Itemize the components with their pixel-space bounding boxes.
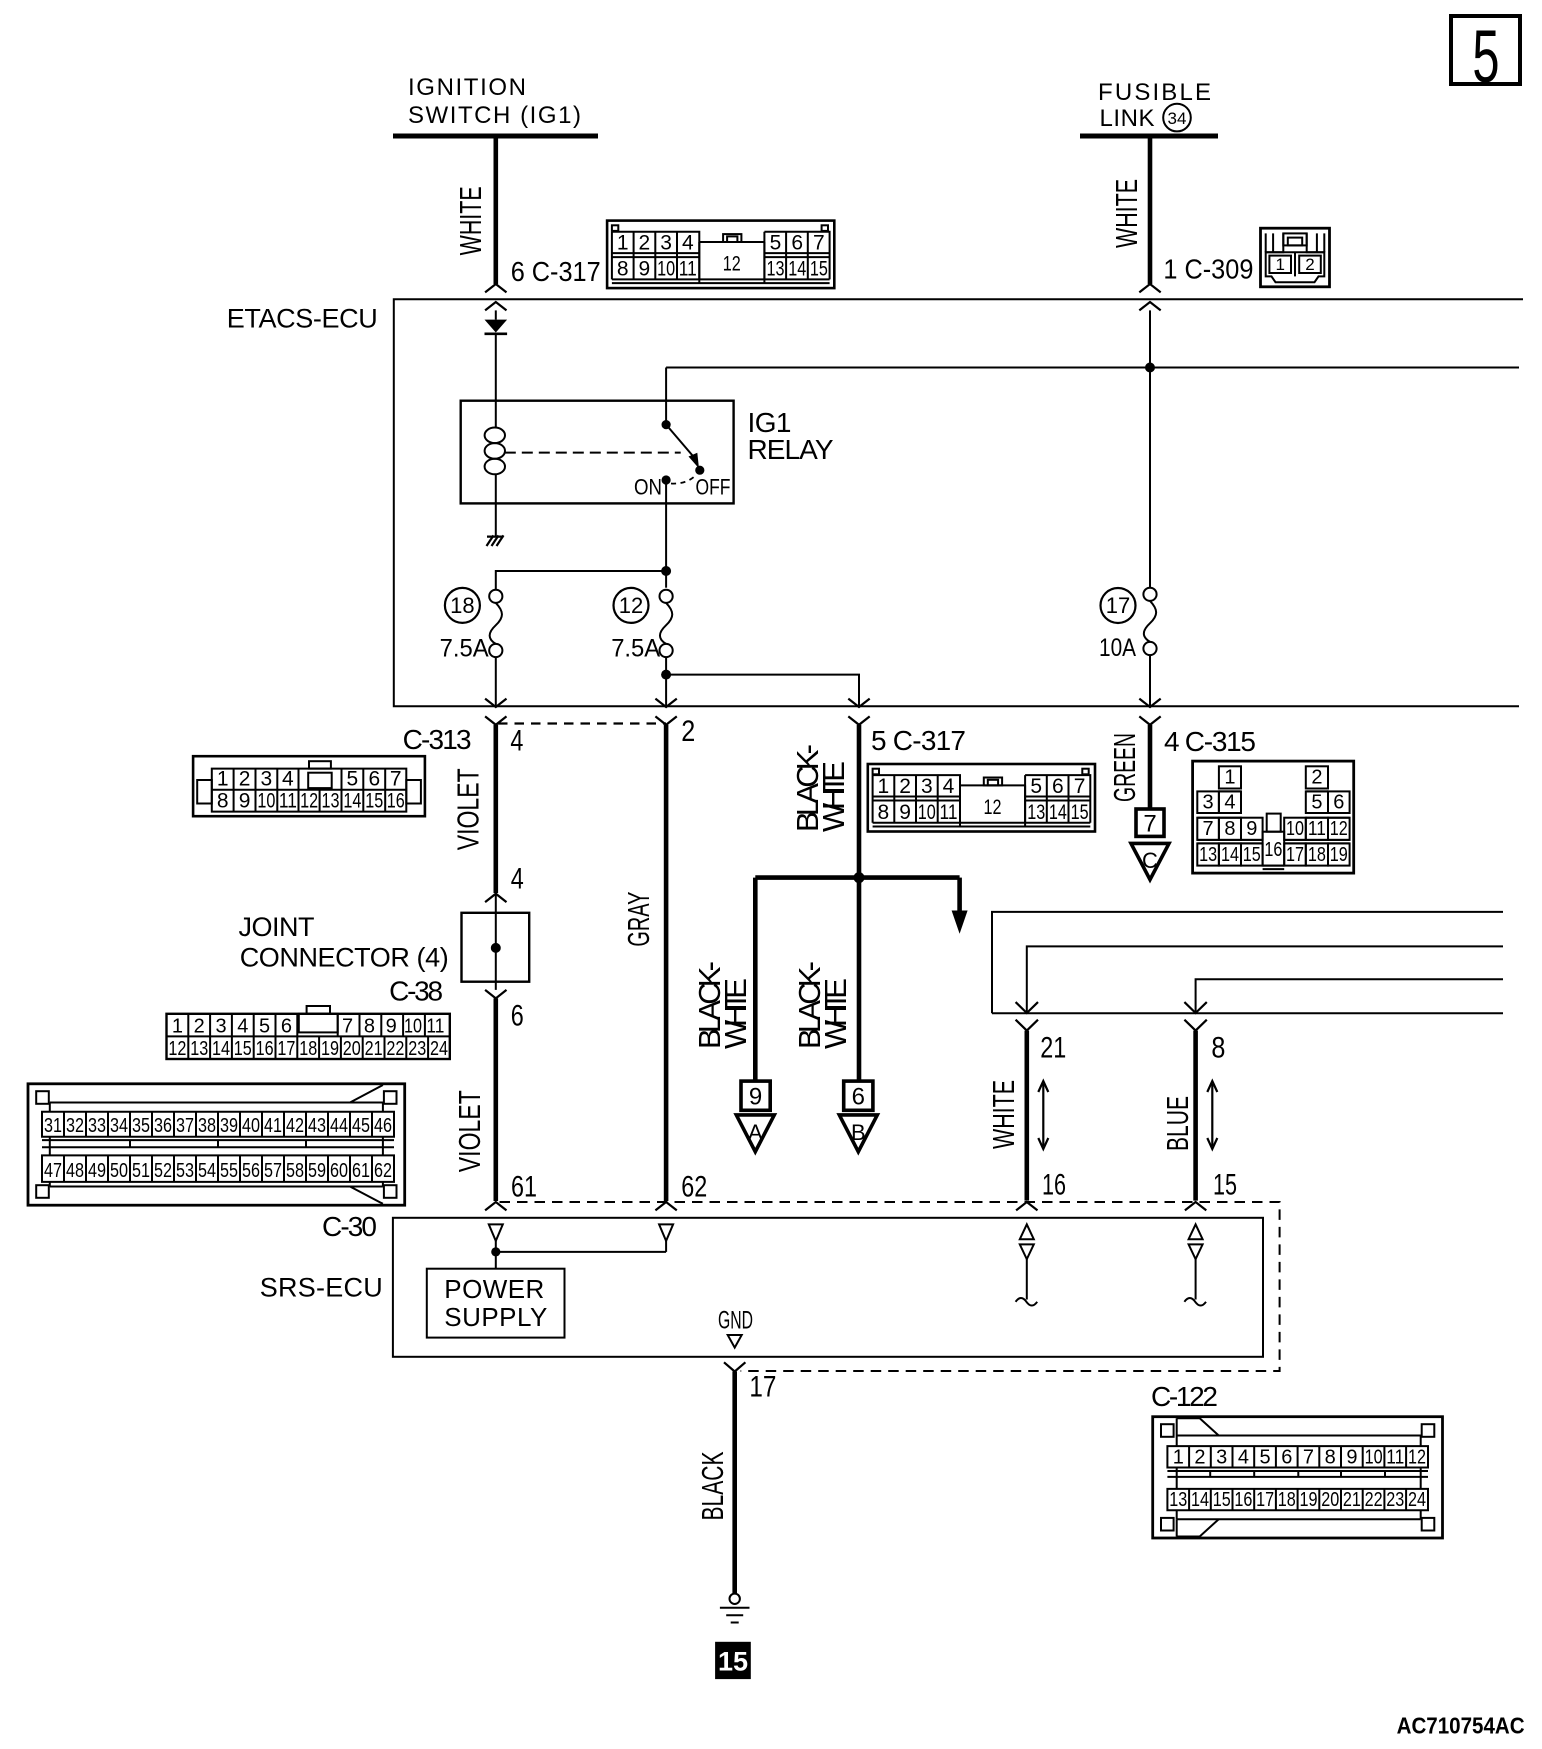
wire junction to fuse 12 xyxy=(665,571,667,588)
svg-text:22: 22 xyxy=(386,1038,404,1060)
svg-text:8: 8 xyxy=(217,790,229,813)
svg-text:7: 7 xyxy=(342,1015,353,1037)
harness line 3 (blue wire feed) xyxy=(1196,979,1503,1013)
svg-text:36: 36 xyxy=(154,1115,172,1137)
svg-text:1: 1 xyxy=(217,768,229,791)
svg-text:AC710754AC: AC710754AC xyxy=(1397,1713,1525,1739)
wire from relay ON contact down xyxy=(665,480,667,571)
connector C-309 pin diagram xyxy=(1261,228,1330,287)
svg-text:1: 1 xyxy=(172,1015,183,1037)
svg-text:9: 9 xyxy=(239,790,251,813)
internal wiring to power supply xyxy=(496,1241,666,1269)
joint connector entry chevron xyxy=(485,894,506,902)
svg-text:11: 11 xyxy=(1308,818,1326,840)
svg-text:17: 17 xyxy=(277,1038,295,1060)
svg-text:C-38: C-38 xyxy=(389,975,443,1006)
svg-text:15: 15 xyxy=(810,258,828,281)
svg-text:7: 7 xyxy=(1203,818,1214,840)
svg-text:GREEN: GREEN xyxy=(1107,733,1142,802)
fusible link bus bar xyxy=(1080,134,1218,139)
svg-text:16: 16 xyxy=(256,1038,274,1060)
white wire connector chevrons xyxy=(1016,1002,1038,1031)
fuse 18 xyxy=(489,590,502,657)
wire GRAY from ETACS pin 2 to SRS pin 62 xyxy=(664,725,669,1201)
fuse 12 number xyxy=(614,588,649,623)
svg-text:BLUE: BLUE xyxy=(1160,1096,1195,1151)
svg-text:19: 19 xyxy=(1330,844,1348,866)
wire from relay switch up to bus xyxy=(665,368,667,425)
svg-text:1: 1 xyxy=(617,232,629,255)
svg-text:IGNITION: IGNITION xyxy=(408,74,526,101)
svg-text:46: 46 xyxy=(374,1115,392,1137)
svg-text:3: 3 xyxy=(660,232,672,255)
ETACS pin 4 exit chevrons xyxy=(485,699,506,725)
junction on BLACK-WHITE wire xyxy=(854,872,865,883)
svg-text:3: 3 xyxy=(1203,791,1214,813)
svg-text:18: 18 xyxy=(1308,844,1326,866)
joint connector (4) label xyxy=(239,912,449,972)
wire GREEN from ETACS to terminal 7 xyxy=(1148,725,1153,809)
svg-text:60: 60 xyxy=(330,1160,348,1182)
dashed connector line between pin 4 and pin 2 xyxy=(498,722,666,724)
svg-text:39: 39 xyxy=(220,1115,238,1137)
svg-text:17: 17 xyxy=(1256,1489,1274,1511)
svg-text:15: 15 xyxy=(1243,844,1261,866)
svg-text:9: 9 xyxy=(639,258,651,281)
pin 15 internal terminals xyxy=(1184,1224,1206,1305)
terminal 7 box xyxy=(1136,809,1164,838)
relay switch arm with arrow xyxy=(666,425,699,469)
connector C-317 pin diagram (lower) xyxy=(868,764,1095,832)
power supply block xyxy=(427,1269,565,1338)
svg-text:13: 13 xyxy=(190,1038,208,1060)
svg-text:B: B xyxy=(851,1120,866,1145)
svg-text:41: 41 xyxy=(264,1115,282,1137)
wire BLACK to ground xyxy=(732,1372,737,1594)
wire WHITE from ignition switch to C-317 pin 6 xyxy=(493,136,498,284)
svg-text:45: 45 xyxy=(352,1115,370,1137)
ignition switch (IG1) label xyxy=(408,74,581,129)
svg-text:4: 4 xyxy=(282,768,294,791)
svg-text:12: 12 xyxy=(168,1038,186,1060)
pin 15 entry chevron xyxy=(1185,1202,1206,1210)
SRS connector dashed boundary xyxy=(500,1202,1280,1371)
diode inside ETACS xyxy=(485,310,508,400)
connector C-122 pin diagram xyxy=(1153,1417,1443,1538)
svg-text:14: 14 xyxy=(788,258,806,281)
bidirectional arrow blue wire xyxy=(1207,1081,1217,1149)
ETACS green exit chevrons xyxy=(1139,699,1160,725)
svg-text:5: 5 xyxy=(1472,16,1499,99)
svg-text:2: 2 xyxy=(1311,767,1322,789)
svg-text:10: 10 xyxy=(257,790,275,813)
svg-text:24: 24 xyxy=(1408,1489,1426,1511)
svg-text:VIOLET: VIOLET xyxy=(451,768,486,850)
svg-text:4: 4 xyxy=(510,725,523,758)
svg-text:31: 31 xyxy=(44,1115,62,1137)
bidirectional arrow white wire xyxy=(1038,1081,1048,1149)
connector C-313 pin diagram xyxy=(193,756,425,816)
ETACS pin 5 exit chevrons xyxy=(848,699,869,725)
svg-text:18: 18 xyxy=(1278,1489,1296,1511)
relay coil xyxy=(485,401,505,504)
svg-text:JOINT: JOINT xyxy=(239,912,315,942)
svg-text:7: 7 xyxy=(1303,1447,1314,1469)
branch arrow to other circuit xyxy=(952,878,968,934)
svg-text:8: 8 xyxy=(1224,818,1235,840)
svg-text:34: 34 xyxy=(110,1115,128,1137)
svg-text:4: 4 xyxy=(1224,791,1235,813)
svg-text:54: 54 xyxy=(198,1160,216,1182)
svg-text:16: 16 xyxy=(1264,839,1282,861)
svg-text:1 C-309: 1 C-309 xyxy=(1163,253,1253,284)
svg-text:7.5A: 7.5A xyxy=(611,635,660,663)
wire from C-309 down to internal bus and fuse 17 xyxy=(1149,310,1151,587)
svg-text:58: 58 xyxy=(286,1160,304,1182)
svg-text:50: 50 xyxy=(110,1160,128,1182)
connector C-38 pin diagram xyxy=(167,1006,450,1060)
destination triangle A xyxy=(736,1115,774,1152)
svg-text:18: 18 xyxy=(450,593,474,618)
svg-text:FUSIBLE: FUSIBLE xyxy=(1098,79,1211,106)
svg-text:2: 2 xyxy=(1305,255,1314,274)
svg-text:15: 15 xyxy=(365,790,383,813)
joint connector box xyxy=(462,913,530,982)
svg-text:21: 21 xyxy=(365,1038,383,1060)
joint connector exit chevron xyxy=(485,990,506,999)
svg-text:6: 6 xyxy=(511,999,524,1032)
svg-text:6: 6 xyxy=(1281,1447,1292,1469)
svg-text:VIOLET: VIOLET xyxy=(452,1090,487,1172)
GND exit chevron xyxy=(724,1362,745,1371)
relay ON-OFF dashed arc xyxy=(671,475,697,484)
svg-text:1: 1 xyxy=(1275,255,1284,274)
wire BLUE to SRS pin 15 xyxy=(1193,1031,1198,1201)
blue wire connector chevrons xyxy=(1184,1002,1206,1031)
relay ON contact xyxy=(662,475,671,484)
svg-text:7: 7 xyxy=(1143,811,1156,838)
svg-text:6: 6 xyxy=(852,1084,865,1111)
terminal 9 box xyxy=(741,1081,770,1110)
svg-text:32: 32 xyxy=(66,1115,84,1137)
pin 16 entry chevron xyxy=(1016,1202,1037,1210)
svg-text:10: 10 xyxy=(657,258,675,281)
svg-text:3: 3 xyxy=(215,1015,226,1037)
pin 62 internal terminal xyxy=(659,1224,673,1241)
connector symbol 6 C-317 chevrons xyxy=(485,284,506,310)
relay coil ground wire xyxy=(495,503,497,536)
svg-text:GND: GND xyxy=(718,1307,753,1335)
svg-text:13: 13 xyxy=(322,790,340,813)
junction fusible-link feed xyxy=(1145,363,1155,373)
svg-text:5: 5 xyxy=(1260,1447,1271,1469)
pin 16 internal terminals xyxy=(1016,1224,1038,1305)
body ground symbol xyxy=(720,1594,750,1623)
joint connector internal junction dot xyxy=(491,943,501,953)
svg-text:10: 10 xyxy=(1286,818,1304,840)
svg-text:8: 8 xyxy=(364,1015,375,1037)
svg-text:10: 10 xyxy=(1365,1447,1383,1469)
svg-text:34: 34 xyxy=(1168,109,1187,128)
junction at fuse feed xyxy=(661,566,671,576)
svg-text:14: 14 xyxy=(1221,844,1239,866)
svg-text:48: 48 xyxy=(66,1160,84,1182)
svg-text:1: 1 xyxy=(1224,767,1235,789)
svg-text:7: 7 xyxy=(390,768,402,791)
svg-text:13: 13 xyxy=(1169,1489,1187,1511)
svg-text:56: 56 xyxy=(242,1160,260,1182)
svg-text:12: 12 xyxy=(1408,1447,1426,1469)
ETACS pin 2 exit chevrons xyxy=(655,699,676,725)
fuse 18 number xyxy=(445,588,480,623)
svg-text:9: 9 xyxy=(749,1084,762,1111)
fusible link (34) label xyxy=(1098,79,1211,132)
ETACS-ECU box outline xyxy=(394,299,1523,706)
fuse 17 xyxy=(1143,588,1156,655)
svg-text:WHITE: WHITE xyxy=(986,1080,1021,1149)
svg-text:BLACK: BLACK xyxy=(695,1451,730,1520)
svg-text:3: 3 xyxy=(261,768,273,791)
svg-text:17: 17 xyxy=(749,1371,776,1404)
svg-text:SWITCH (IG1): SWITCH (IG1) xyxy=(408,102,581,129)
svg-text:15: 15 xyxy=(1213,1489,1231,1511)
IG1 relay box xyxy=(461,401,734,504)
svg-text:13: 13 xyxy=(1199,844,1217,866)
svg-text:8: 8 xyxy=(1211,1032,1225,1065)
svg-text:14: 14 xyxy=(1191,1489,1209,1511)
svg-text:20: 20 xyxy=(1321,1489,1339,1511)
wire fuse 18 to ETACS pin 4 xyxy=(495,657,497,707)
svg-text:8: 8 xyxy=(617,258,629,281)
internal junction dot xyxy=(491,1247,500,1256)
svg-text:19: 19 xyxy=(321,1038,339,1060)
svg-text:OFF: OFF xyxy=(696,475,731,500)
svg-text:47: 47 xyxy=(44,1160,62,1182)
svg-text:4: 4 xyxy=(511,863,524,896)
relay switch common contact xyxy=(662,420,671,429)
destination triangle B xyxy=(839,1115,877,1152)
connector C-315 pin diagram xyxy=(1193,761,1354,873)
branch wire to ETACS pin 5 xyxy=(666,675,859,707)
svg-text:WHITE: WHITE xyxy=(453,186,488,255)
svg-text:11: 11 xyxy=(1386,1447,1404,1469)
svg-text:33: 33 xyxy=(88,1115,106,1137)
svg-text:WHITE: WHITE xyxy=(1109,179,1144,248)
svg-text:16: 16 xyxy=(387,790,405,813)
svg-text:40: 40 xyxy=(242,1115,260,1137)
svg-text:61: 61 xyxy=(352,1160,370,1182)
svg-text:11: 11 xyxy=(279,790,297,813)
GND internal terminal xyxy=(728,1335,742,1348)
IG1 relay label xyxy=(748,407,834,465)
svg-text:6: 6 xyxy=(791,232,803,255)
svg-text:44: 44 xyxy=(330,1115,348,1137)
svg-text:C-30: C-30 xyxy=(322,1211,377,1242)
svg-text:7.5A: 7.5A xyxy=(440,635,489,663)
svg-text:SUPPLY: SUPPLY xyxy=(444,1302,547,1332)
svg-text:5: 5 xyxy=(1311,791,1322,813)
svg-text:7: 7 xyxy=(813,232,825,255)
wire BLACK-WHITE from ETACS pin 5 xyxy=(857,725,862,1081)
svg-text:2: 2 xyxy=(1194,1447,1205,1469)
relay OFF contact xyxy=(695,466,704,475)
svg-text:49: 49 xyxy=(88,1160,106,1182)
svg-text:6 C-317: 6 C-317 xyxy=(511,256,601,287)
svg-text:14: 14 xyxy=(212,1038,230,1060)
svg-text:16: 16 xyxy=(1042,1169,1066,1202)
svg-text:CONNECTOR (4): CONNECTOR (4) xyxy=(240,943,449,973)
svg-text:21: 21 xyxy=(1040,1032,1066,1065)
junction for pin 5 branch xyxy=(661,670,671,680)
pin 62 entry chevron xyxy=(655,1202,676,1210)
svg-text:61: 61 xyxy=(511,1171,537,1204)
svg-text:57: 57 xyxy=(264,1160,282,1182)
pin 61 entry chevron xyxy=(485,1202,506,1210)
svg-text:62: 62 xyxy=(374,1160,392,1182)
terminal 6 box xyxy=(844,1081,873,1110)
svg-text:4: 4 xyxy=(682,232,694,255)
svg-text:5: 5 xyxy=(347,768,359,791)
branch line left and right xyxy=(755,875,959,880)
wire through joint connector xyxy=(495,894,497,990)
svg-text:5: 5 xyxy=(770,232,782,255)
svg-text:17: 17 xyxy=(1106,593,1130,618)
svg-text:ON: ON xyxy=(634,475,662,500)
svg-text:59: 59 xyxy=(308,1160,326,1182)
svg-text:4: 4 xyxy=(237,1015,248,1037)
svg-text:12: 12 xyxy=(300,790,318,813)
svg-text:23: 23 xyxy=(408,1038,426,1060)
svg-text:9: 9 xyxy=(1346,1447,1357,1469)
connector C-30 pin diagram xyxy=(28,1084,405,1205)
svg-text:55: 55 xyxy=(220,1160,238,1182)
svg-text:19: 19 xyxy=(1300,1489,1318,1511)
svg-text:4 C-315: 4 C-315 xyxy=(1164,726,1256,757)
svg-text:C: C xyxy=(1142,848,1158,873)
svg-text:15: 15 xyxy=(718,1647,748,1677)
wire WHITE from fusible link to C-309 pin 1 xyxy=(1148,136,1153,284)
svg-text:ETACS-ECU: ETACS-ECU xyxy=(227,303,378,333)
svg-text:16: 16 xyxy=(1234,1489,1252,1511)
svg-text:2: 2 xyxy=(194,1015,205,1037)
svg-text:9: 9 xyxy=(1246,818,1257,840)
harness line 4 xyxy=(992,1012,1503,1014)
svg-text:6: 6 xyxy=(281,1015,292,1037)
svg-text:SRS-ECU: SRS-ECU xyxy=(260,1273,383,1303)
svg-text:20: 20 xyxy=(343,1038,361,1060)
wire fuse 12 to ETACS pin 2 xyxy=(665,657,667,707)
svg-text:52: 52 xyxy=(154,1160,172,1182)
page number 5 box xyxy=(1451,16,1520,99)
svg-text:62: 62 xyxy=(681,1171,707,1204)
svg-text:LINK: LINK xyxy=(1100,105,1155,132)
svg-text:8: 8 xyxy=(1325,1447,1336,1469)
svg-text:13: 13 xyxy=(767,258,785,281)
pin 61 internal terminal xyxy=(489,1224,503,1241)
svg-text:37: 37 xyxy=(176,1115,194,1137)
svg-text:15: 15 xyxy=(1213,1169,1237,1202)
svg-text:10A: 10A xyxy=(1099,634,1136,662)
fuse 12 xyxy=(660,590,673,657)
svg-text:RELAY: RELAY xyxy=(748,434,834,465)
svg-text:4: 4 xyxy=(1238,1447,1249,1469)
svg-text:22: 22 xyxy=(1365,1489,1383,1511)
svg-text:5: 5 xyxy=(259,1015,270,1037)
svg-text:11: 11 xyxy=(679,258,697,281)
svg-text:23: 23 xyxy=(1386,1489,1404,1511)
svg-text:10: 10 xyxy=(404,1015,422,1037)
svg-text:C-122: C-122 xyxy=(1151,1381,1218,1412)
wire VIOLET from joint connector to SRS pin 61 xyxy=(493,998,498,1201)
harness line 2 (white wire feed) xyxy=(1027,946,1503,1013)
svg-text:15: 15 xyxy=(234,1038,252,1060)
relay actuation dashed line xyxy=(505,452,681,454)
svg-text:A: A xyxy=(748,1120,763,1145)
svg-text:14: 14 xyxy=(343,790,361,813)
svg-text:38: 38 xyxy=(198,1115,216,1137)
svg-text:9: 9 xyxy=(386,1015,397,1037)
svg-text:21: 21 xyxy=(1343,1489,1361,1511)
destination triangle C xyxy=(1131,843,1169,879)
svg-text:C-313: C-313 xyxy=(403,724,472,755)
svg-text:51: 51 xyxy=(132,1160,150,1182)
wire fuse 17 to ETACS green output xyxy=(1149,655,1151,707)
svg-text:6: 6 xyxy=(1333,791,1344,813)
svg-text:6: 6 xyxy=(368,768,380,791)
harness line 1 from other sheet xyxy=(992,912,1503,1013)
svg-text:GRAY: GRAY xyxy=(621,892,656,947)
svg-text:POWER: POWER xyxy=(444,1274,544,1304)
connector symbol 1 C-309 chevrons xyxy=(1139,284,1160,310)
relay internal ground symbol xyxy=(487,535,504,546)
ignition switch bus bar xyxy=(393,134,598,139)
svg-text:17: 17 xyxy=(1286,844,1304,866)
svg-text:3: 3 xyxy=(1216,1447,1227,1469)
ground point 15 black box xyxy=(715,1642,751,1679)
svg-text:42: 42 xyxy=(286,1115,304,1137)
connector C-317 pin diagram (top) xyxy=(607,221,834,289)
svg-text:12: 12 xyxy=(1330,818,1348,840)
svg-text:35: 35 xyxy=(132,1115,150,1137)
branch line to fuse 18 xyxy=(496,571,666,590)
wire VIOLET from C-313 pin 4 to joint connector xyxy=(493,725,498,893)
svg-text:12: 12 xyxy=(619,593,643,618)
svg-text:2: 2 xyxy=(681,715,695,748)
svg-text:5 C-317: 5 C-317 xyxy=(871,725,966,756)
svg-text:43: 43 xyxy=(308,1115,326,1137)
svg-text:2: 2 xyxy=(639,232,651,255)
svg-text:11: 11 xyxy=(426,1015,444,1037)
svg-text:53: 53 xyxy=(176,1160,194,1182)
fuse 17 number xyxy=(1101,588,1136,623)
svg-text:18: 18 xyxy=(299,1038,317,1060)
wire WHITE to SRS pin 16 xyxy=(1025,1031,1030,1201)
internal bus from relay to right edge xyxy=(666,367,1519,369)
svg-text:2: 2 xyxy=(239,768,251,791)
svg-text:12: 12 xyxy=(723,253,741,276)
branch wire to terminal 9 xyxy=(753,878,758,1082)
svg-text:1: 1 xyxy=(1173,1447,1184,1469)
SRS-ECU box xyxy=(393,1218,1263,1357)
svg-text:24: 24 xyxy=(430,1038,448,1060)
